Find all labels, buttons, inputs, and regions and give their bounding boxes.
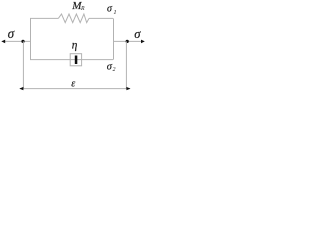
svg-text:σ: σ (8, 26, 15, 41)
arrowhead left sigma (1, 40, 5, 44)
wire: right vertical of parallel frame (113, 18, 115, 59)
wire: right sigma lead (113, 40, 144, 42)
dashpot piston (75, 56, 78, 65)
dashpot cylinder (70, 54, 81, 66)
svg-text:σ: σ (134, 27, 141, 41)
junction dot right (126, 40, 129, 43)
wire: left vertical of parallel frame (30, 18, 32, 59)
svg-text:1: 1 (113, 9, 116, 16)
arrowhead right sigma (141, 40, 145, 44)
junction dot left (21, 40, 24, 43)
wire: bottom rail (dashpot branch) (30, 59, 113, 61)
svg-text:2: 2 (113, 67, 116, 73)
arrowhead strain left (19, 87, 23, 90)
wire: top rail right segment (89, 17, 113, 19)
wire: right dropline to strain line (125, 41, 127, 88)
wire: left dropline to strain line (22, 41, 24, 88)
svg-text:η: η (72, 40, 78, 52)
spring M_R zigzag (58, 14, 89, 23)
arrowhead strain right (126, 87, 130, 90)
wire: strain dimension line (20, 88, 130, 90)
wire: left sigma lead (3, 40, 31, 42)
background (0, 0, 146, 93)
wire: top rail left segment (30, 17, 58, 19)
svg-text:R: R (80, 6, 85, 12)
svg-text:ε: ε (71, 79, 75, 90)
